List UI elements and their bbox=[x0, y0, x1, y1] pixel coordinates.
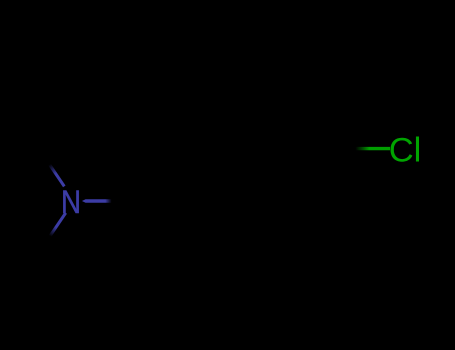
svg-text:N: N bbox=[61, 184, 81, 220]
svg-text:Cl: Cl bbox=[389, 132, 422, 170]
wire: N-CH3 lower bond (blue half, fades to black) bbox=[50, 213, 66, 236]
wire: N-CH2 right bond (blue half, fades to black), pointed left tip bbox=[82, 199, 86, 203]
wire: N-CH3 upper bond (blue half, fades to black) bbox=[50, 165, 65, 187]
wire: C-Cl bond (green half, fades to black) bbox=[356, 147, 391, 150]
